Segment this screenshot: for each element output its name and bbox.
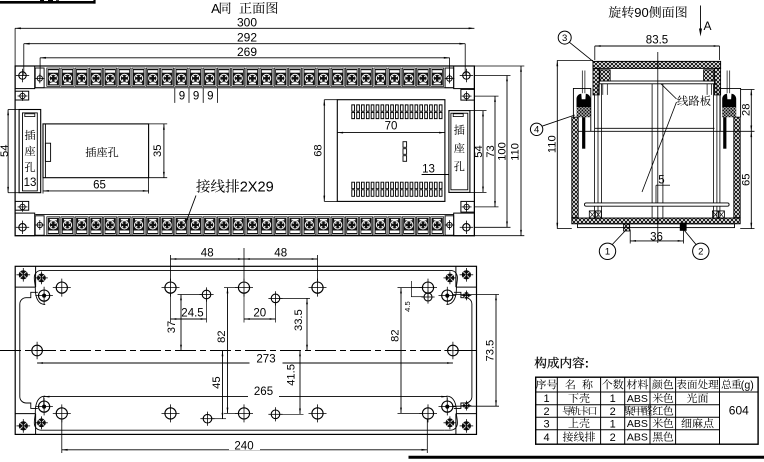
dim 83.5 xyxy=(594,46,596,60)
corner small dark holes xyxy=(37,274,45,282)
module small connector stack xyxy=(403,142,407,148)
svg-text:3: 3 xyxy=(562,33,567,44)
svg-text:2: 2 xyxy=(610,406,616,418)
interior vertical lines xyxy=(594,95,596,218)
side view title 旋转90侧面图 xyxy=(609,6,621,18)
svg-text:4: 4 xyxy=(543,432,549,444)
terminal cells bottom row (29) xyxy=(47,217,60,235)
svg-text:1: 1 xyxy=(610,418,616,430)
svg-text:82: 82 xyxy=(216,330,228,342)
second row holes top xyxy=(202,290,211,299)
dim 82 left xyxy=(224,287,238,289)
dim 48 48 top xyxy=(170,255,172,281)
dim 9 9 9 terminal pitch xyxy=(174,88,176,103)
inner bottom plate (5) xyxy=(585,203,730,206)
svg-text:4: 4 xyxy=(534,125,539,136)
svg-text:13: 13 xyxy=(24,177,37,189)
svg-text:65: 65 xyxy=(93,180,106,192)
mounting tab bottom-left xyxy=(15,213,35,236)
svg-text:54: 54 xyxy=(0,145,11,157)
svg-text:(g): (g) xyxy=(741,379,754,391)
svg-text:2: 2 xyxy=(698,247,703,258)
table title 构成内容: xyxy=(535,357,547,369)
lid left wall xyxy=(593,68,599,95)
dim 269 xyxy=(40,57,450,59)
right connector 插座孔 xyxy=(449,111,470,193)
mounting tab top-left small xyxy=(15,91,29,100)
din clip right (black) xyxy=(680,223,687,231)
label 接线排2X29 xyxy=(196,179,210,192)
svg-text:A: A xyxy=(703,19,711,33)
balloon 2 xyxy=(693,243,709,259)
svg-text:35: 35 xyxy=(152,145,164,157)
svg-text:2X29: 2X29 xyxy=(240,180,274,196)
balloon 1 xyxy=(599,243,615,259)
svg-text:9: 9 xyxy=(179,91,185,103)
center module 68x70 xyxy=(337,100,445,202)
dim 37 xyxy=(178,294,202,296)
left screw shaft xyxy=(582,117,585,149)
svg-text:ABS: ABS xyxy=(627,393,648,405)
dim 65 xyxy=(42,178,44,194)
svg-text:ABS: ABS xyxy=(627,432,648,444)
dim 4.5 xyxy=(411,287,424,289)
svg-text:1: 1 xyxy=(610,393,616,405)
svg-text:9: 9 xyxy=(193,91,199,103)
corner screw boxes xyxy=(35,266,37,287)
svg-text:73.5: 73.5 xyxy=(484,340,496,362)
main holes bottom row xyxy=(56,408,67,419)
label 线路板 xyxy=(677,95,688,105)
socket hole box 65x35 xyxy=(43,124,149,178)
svg-text:68: 68 xyxy=(313,144,325,156)
left terminal stack (section) xyxy=(577,94,591,108)
table header xyxy=(536,379,546,389)
svg-text:82: 82 xyxy=(390,329,402,341)
svg-text:604: 604 xyxy=(729,404,749,418)
svg-text:2: 2 xyxy=(610,432,616,444)
dim 41.5 xyxy=(280,413,303,415)
dim 24.5 xyxy=(170,294,172,323)
svg-text:36: 36 xyxy=(650,231,663,243)
svg-text::: : xyxy=(585,356,589,370)
svg-text:269: 269 xyxy=(237,45,257,59)
corner medium holes xyxy=(39,290,50,301)
dim 35 xyxy=(149,123,168,125)
svg-text:90: 90 xyxy=(634,5,648,20)
bottom view outer rect xyxy=(15,266,476,434)
svg-text:265: 265 xyxy=(254,386,273,398)
mounting tab bottom-left small xyxy=(15,201,29,210)
dim 100 right xyxy=(474,75,510,77)
circuit board posts xyxy=(600,70,610,81)
module vent slots xyxy=(352,105,442,196)
svg-text:28: 28 xyxy=(740,104,752,116)
dim 36 xyxy=(629,230,631,244)
svg-text:41.5: 41.5 xyxy=(285,364,297,386)
dim 110 side xyxy=(557,59,593,61)
table grid xyxy=(536,377,758,444)
balloon 3 xyxy=(558,31,571,44)
section arrow A xyxy=(700,6,702,34)
balloon 4 xyxy=(530,123,542,135)
svg-text:9: 9 xyxy=(207,91,213,103)
bottom border thick line xyxy=(409,456,764,459)
svg-text:65: 65 xyxy=(740,174,752,186)
dim 45 xyxy=(212,418,226,420)
shoulder ledge lines xyxy=(595,127,715,129)
svg-text:5: 5 xyxy=(658,174,664,186)
svg-text:4.5: 4.5 xyxy=(403,301,412,312)
svg-text:1: 1 xyxy=(543,393,549,405)
left connector 插座孔 13x54 xyxy=(19,110,41,193)
svg-text:45: 45 xyxy=(211,376,223,388)
svg-text:A: A xyxy=(211,1,220,16)
svg-text:54: 54 xyxy=(473,145,485,157)
right screw tip xyxy=(726,71,728,94)
body left wall xyxy=(572,117,578,218)
svg-text:292: 292 xyxy=(237,31,257,45)
center line (dash-dot) xyxy=(0,350,477,352)
dim 20 xyxy=(243,294,245,323)
circuit board 线路板 xyxy=(599,81,715,84)
lid top band (hatched) xyxy=(593,61,721,68)
svg-text:240: 240 xyxy=(234,441,253,453)
svg-text:13: 13 xyxy=(422,164,435,176)
svg-text:48: 48 xyxy=(274,248,287,260)
body right wall xyxy=(734,117,740,218)
board support legs xyxy=(602,84,604,95)
svg-text:100: 100 xyxy=(496,142,508,161)
dim 240 xyxy=(61,420,63,454)
din clip left (hatched) xyxy=(624,224,630,231)
dim 110 right xyxy=(474,65,524,67)
dim 273 xyxy=(37,362,453,364)
dim 33.5 xyxy=(280,297,310,299)
top-left cut-off title box remnant xyxy=(0,1,96,4)
strip end piece top-left xyxy=(35,68,44,88)
dim 28 / 65 right xyxy=(741,89,755,91)
svg-text:83.5: 83.5 xyxy=(646,34,668,46)
svg-text:33.5: 33.5 xyxy=(293,309,305,331)
center-line holes xyxy=(32,345,43,356)
inner plate contour xyxy=(34,270,47,304)
mounting tab bottom-right small xyxy=(461,201,475,212)
dim 73.5 right xyxy=(453,294,499,296)
svg-text:273: 273 xyxy=(256,354,275,366)
strip end piece bottom-left xyxy=(35,216,44,235)
svg-text:70: 70 xyxy=(385,121,398,133)
mounting tab bottom-right xyxy=(454,213,475,236)
dim 265 xyxy=(43,397,45,405)
terminal cells top row (29) xyxy=(47,68,60,86)
mounting tab top-right small xyxy=(461,89,475,100)
right screw shaft xyxy=(723,117,726,149)
terminal strip 2x29 top band xyxy=(35,87,454,89)
bottom support posts xyxy=(589,211,595,218)
svg-text:73: 73 xyxy=(485,145,497,157)
svg-text:2: 2 xyxy=(543,406,549,418)
right terminal stack (section) xyxy=(722,94,736,108)
svg-text:3: 3 xyxy=(543,418,549,430)
mounting tab top-left xyxy=(15,66,35,89)
strip end piece bottom-right xyxy=(445,216,454,235)
left screw tip xyxy=(581,71,583,94)
corner dark holes xyxy=(19,271,27,279)
dim 73 right xyxy=(474,95,498,97)
svg-text:ABS: ABS xyxy=(627,418,648,430)
svg-text:110: 110 xyxy=(510,143,522,161)
right ear outline xyxy=(720,88,740,131)
svg-text:48: 48 xyxy=(201,248,214,260)
mounting tab top-right xyxy=(454,66,475,89)
lid right wall xyxy=(714,68,720,95)
dim 292 xyxy=(24,43,465,45)
front body outline xyxy=(15,66,474,236)
dim 54 right xyxy=(470,110,487,112)
svg-text:300: 300 xyxy=(237,16,257,30)
svg-text:1: 1 xyxy=(605,247,610,258)
left ear outline xyxy=(573,88,590,131)
svg-text:24.5: 24.5 xyxy=(181,307,203,319)
dim 82 right xyxy=(398,287,422,289)
base plate xyxy=(578,224,735,228)
second row holes bottom xyxy=(203,414,212,423)
dim 54 left xyxy=(8,109,19,111)
svg-text:20: 20 xyxy=(253,307,266,319)
bottom band (hatched) xyxy=(572,218,740,224)
main holes top row xyxy=(56,282,67,293)
center line xyxy=(657,52,659,243)
dim 70 xyxy=(337,132,445,134)
small holes right edge xyxy=(464,293,470,299)
svg-text:37: 37 xyxy=(166,321,178,333)
strip end piece top-right xyxy=(445,68,454,88)
svg-text:110: 110 xyxy=(546,135,558,153)
dim 68 xyxy=(324,99,337,101)
dim 300 xyxy=(15,27,474,29)
